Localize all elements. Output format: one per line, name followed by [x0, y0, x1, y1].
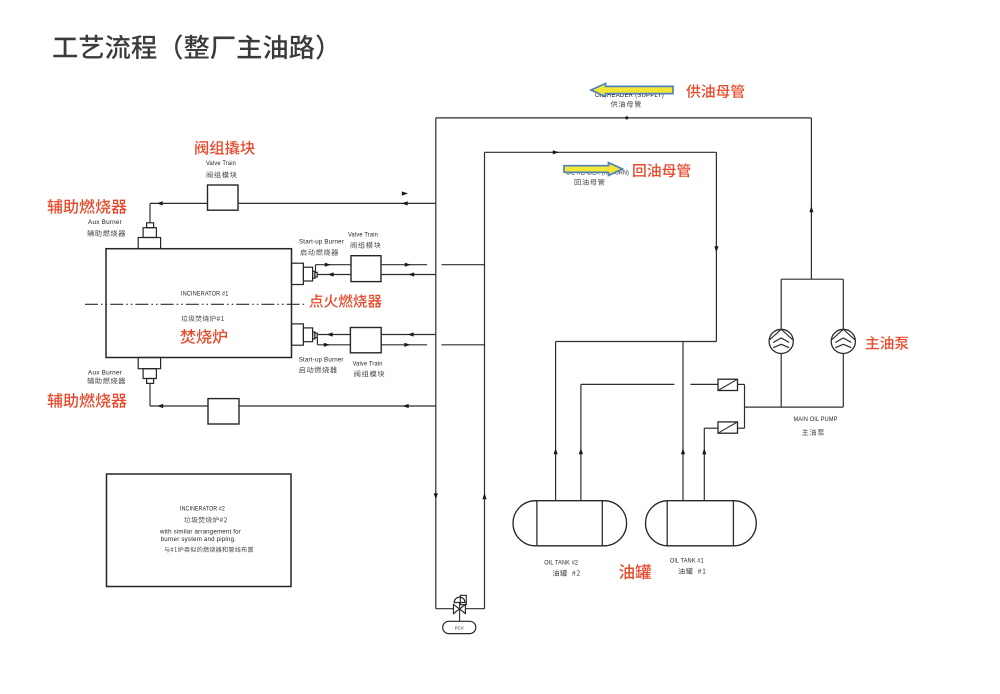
- label 辅助燃烧器 (red, top): [47, 199, 126, 214]
- wire filter F2 outlet: [738, 427, 745, 429]
- pump P2 suction/discharge legs: [842, 279, 844, 329]
- floating direction arrow: [402, 191, 408, 195]
- return jog wire (upper burner): [315, 265, 317, 273]
- label 辅助燃烧器 (small, top): [87, 230, 125, 237]
- tank T2 suction riser: [580, 384, 582, 500]
- flow arrow on top aux supply: [402, 201, 408, 205]
- return jog wire (lower burner): [316, 338, 318, 345]
- flow arrow upper return a: [325, 263, 331, 267]
- wire valve train to supply riser (bottom aux): [239, 405, 436, 407]
- junction node on supply header: [625, 116, 628, 119]
- flow arrow on bottom aux supply: [403, 404, 409, 408]
- label 主油泵 (small): [802, 429, 824, 436]
- PCV stem: [459, 603, 461, 621]
- valve train box (upper start-up): [351, 256, 381, 282]
- label 与#1炉类似的燃烧器和管线布置: [164, 547, 253, 553]
- flow arrow tank T2 return riser: [554, 448, 558, 454]
- lower return wire to return riser: [381, 344, 427, 346]
- supply wire to upper burner: [317, 274, 351, 276]
- flow arrow tank T2 suction riser: [579, 448, 583, 454]
- label 辅助燃烧器 (small, bottom): [87, 377, 125, 384]
- flow arrow to aux burner 2: [157, 404, 163, 408]
- svg-text:Start-up Burner: Start-up Burner: [299, 239, 344, 246]
- supply header pipe: [436, 117, 812, 119]
- label 主油泵 (red): [866, 336, 909, 350]
- title 工艺流程（整厂主油路）: [53, 34, 323, 59]
- supply riser pipe: [435, 118, 437, 609]
- control valve PCV body: [454, 604, 466, 613]
- label 油罐 #1: [678, 568, 705, 575]
- aux burner 2 symbol: [138, 358, 160, 369]
- main oil pump P1: [769, 329, 793, 353]
- return header annotation arrow (yellow): [564, 163, 623, 176]
- svg-text:OIL TANK #1: OIL TANK #1: [670, 558, 704, 565]
- flow arrow lower supply a: [327, 332, 333, 336]
- label 点火燃烧器 (red): [310, 294, 382, 308]
- lower supply wire from supply riser: [381, 334, 436, 336]
- label 供油母管 (red): [686, 84, 744, 98]
- centerline of incinerator #1: [85, 303, 305, 305]
- return header pipe: [485, 151, 717, 153]
- svg-text:Aux Burner: Aux Burner: [88, 370, 122, 377]
- label 启动燃烧器 (lower): [299, 366, 337, 373]
- label 供油母管 (small): [611, 101, 641, 108]
- flow arrow tank T1 return riser: [681, 448, 685, 454]
- tank T2 suction run: [581, 383, 675, 385]
- flow arrow on discharge riser: [809, 206, 813, 212]
- return downcomer pipe: [715, 152, 717, 341]
- svg-text:Start-up Burner: Start-up Burner: [299, 357, 344, 364]
- flow arrow lower supply b: [408, 332, 414, 336]
- start-up burner 1 symbol: [292, 263, 304, 284]
- svg-text:with similar arrangement for: with similar arrangement for: [159, 529, 241, 536]
- label 焚烧炉 (red): [180, 329, 227, 344]
- wire supply riser to PCV: [436, 608, 454, 610]
- flow arrow on return downcomer: [714, 246, 718, 252]
- svg-text:INCINERATOR #1: INCINERATOR #1: [181, 291, 229, 298]
- supply header annotation arrow (yellow): [591, 83, 673, 96]
- incinerator #1 vessel: [106, 249, 292, 358]
- start-up burner 2 symbol: [292, 324, 304, 345]
- pump P1 suction/discharge legs: [780, 279, 782, 329]
- flow arrow upper supply b: [408, 272, 414, 276]
- PCV tag balloon: [443, 621, 476, 633]
- label 垃圾焚烧炉#2: [184, 517, 227, 523]
- svg-text:Valve Train: Valve Train: [206, 160, 236, 167]
- valve train box (bottom aux): [208, 399, 239, 424]
- valve train box (lower start-up): [350, 328, 381, 353]
- tank T2 return riser: [555, 342, 557, 501]
- label 回油母管 (red): [633, 163, 690, 177]
- incinerator #2 vessel: [107, 474, 292, 587]
- svg-text:PCV: PCV: [455, 625, 464, 630]
- flow arrow upper return b: [405, 263, 411, 267]
- flow arrow upper supply a: [328, 272, 334, 276]
- svg-text:Aux Burner: Aux Burner: [88, 219, 122, 226]
- flow arrow on return header: [553, 150, 559, 154]
- pump suction header: [745, 406, 844, 408]
- wire filter F2 inlet: [704, 427, 718, 429]
- label 阀组模块 (lower right): [354, 370, 384, 377]
- flow arrow to aux burner 1: [157, 201, 163, 205]
- label 启动燃烧器 (upper): [300, 249, 338, 256]
- svg-text:OIL TANK #2: OIL TANK #2: [544, 560, 578, 567]
- flow arrow on return riser: [482, 493, 486, 499]
- main oil pump P2: [831, 329, 855, 353]
- svg-text:Valve Train: Valve Train: [348, 232, 378, 239]
- supply wire to lower burner: [317, 334, 350, 336]
- wire filter F1 inlet stub: [690, 383, 718, 385]
- tank T1 suction riser: [703, 428, 705, 501]
- filter outlet manifold: [744, 384, 746, 428]
- label 阀组模块 (upper right): [351, 242, 381, 249]
- svg-text:burner system and piping.: burner system and piping.: [161, 536, 237, 543]
- upper return wire to return riser: [381, 264, 427, 266]
- flow arrow tank T1 suction riser: [702, 448, 706, 454]
- svg-text:Valve Train: Valve Train: [353, 361, 383, 368]
- PCV actuator diaphragm: [454, 597, 465, 602]
- wire aux burner 2 stem: [149, 383, 151, 406]
- flow arrow lower return a: [324, 343, 330, 347]
- flow arrow on supply riser: [434, 493, 438, 499]
- oil tank #2 vessel: [513, 501, 627, 546]
- wire PCV to return riser: [465, 608, 484, 610]
- wire corner down to burner (top aux): [149, 203, 151, 222]
- wire filter F1 outlet: [738, 383, 745, 385]
- aux burner 1 symbol: [147, 223, 154, 228]
- svg-text:INCINERATOR #2: INCINERATOR #2: [180, 506, 225, 513]
- upper supply wire from supply riser: [381, 274, 436, 276]
- suction filter F1 (upper): [718, 379, 738, 390]
- wire aux burner 2 to valve train: [150, 405, 208, 407]
- pump discharge riser: [810, 118, 812, 279]
- pump discharge header: [781, 278, 843, 280]
- oil tank #1 vessel: [646, 501, 757, 546]
- suction filter F2 (lower): [718, 422, 738, 433]
- valve train box (top aux): [208, 185, 239, 210]
- wire valve train to supply riser (top aux): [238, 202, 436, 204]
- label 辅助燃烧器 (red, bottom): [47, 393, 126, 408]
- svg-text:MAIN OIL PUMP: MAIN OIL PUMP: [794, 416, 838, 423]
- tank return run pipe: [556, 341, 717, 343]
- label 回油母管 (small): [575, 179, 605, 186]
- label 阀组撬块 (red): [195, 141, 255, 155]
- wire box to corner (top aux): [150, 202, 208, 204]
- label 油罐 #2: [553, 570, 580, 577]
- return riser pipe: [484, 152, 486, 608]
- label 阀组模块 (top): [207, 171, 237, 178]
- flow arrow lower return b: [404, 343, 410, 347]
- label 垃圾焚烧炉#1: [181, 315, 224, 321]
- tank T1 return riser: [682, 342, 684, 501]
- label 油罐 (red): [619, 564, 651, 579]
